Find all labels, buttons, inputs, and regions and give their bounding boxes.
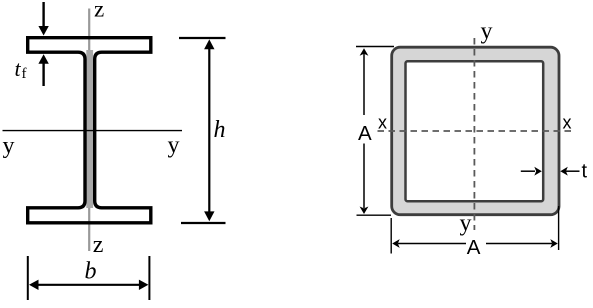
y axis line <box>3 130 183 132</box>
h dimension top bar <box>179 37 226 39</box>
b dimension line <box>37 284 141 286</box>
svg-text:t: t <box>582 160 588 182</box>
A bottom arrow right <box>550 239 558 248</box>
b extension line right <box>148 256 150 300</box>
h arrow down <box>204 211 214 221</box>
svg-text:h: h <box>214 117 226 143</box>
t arrow right <box>566 170 580 172</box>
A left arrow down <box>360 207 369 215</box>
A left bottom extension line <box>357 214 392 216</box>
h dimension line <box>208 47 210 213</box>
h dimension bottom bar <box>181 222 226 224</box>
t arrow left <box>521 170 535 172</box>
svg-text:t: t <box>15 56 22 81</box>
outer square <box>392 47 559 215</box>
svg-text:x: x <box>563 113 572 133</box>
A bottom dimension line left segment <box>398 243 466 245</box>
A left dimension line lower segment <box>363 144 365 209</box>
b extension line left <box>27 256 29 300</box>
tf upper arrow <box>42 2 44 27</box>
web gray fill <box>86 50 93 208</box>
svg-text:x: x <box>378 112 387 132</box>
b arrow left <box>29 280 39 290</box>
inner square <box>406 61 544 201</box>
A left top extension line <box>356 46 394 48</box>
svg-text:y: y <box>460 211 472 237</box>
svg-text:f: f <box>22 66 27 82</box>
z axis line <box>88 9 90 252</box>
svg-text:b: b <box>85 259 97 285</box>
svg-text:A: A <box>358 122 372 145</box>
svg-text:y: y <box>168 133 180 159</box>
y dashed axis vertical <box>473 38 475 230</box>
A left arrow up <box>360 48 369 56</box>
h arrow up <box>204 39 214 49</box>
A bottom arrow left <box>392 239 400 248</box>
svg-text:y: y <box>481 18 493 44</box>
A bottom left extension line <box>390 218 392 254</box>
x dashed axis horizontal <box>378 130 573 132</box>
A bottom right extension line <box>558 206 560 250</box>
svg-text:A: A <box>467 236 481 259</box>
svg-text:z: z <box>94 0 104 22</box>
A left dimension line upper segment <box>363 53 365 115</box>
A bottom dimension line right segment <box>486 243 552 245</box>
I-beam outline <box>28 38 151 223</box>
b arrow right <box>139 280 149 290</box>
svg-text:z: z <box>93 232 104 258</box>
tf lower arrow <box>42 63 44 86</box>
svg-text:y: y <box>3 133 15 159</box>
